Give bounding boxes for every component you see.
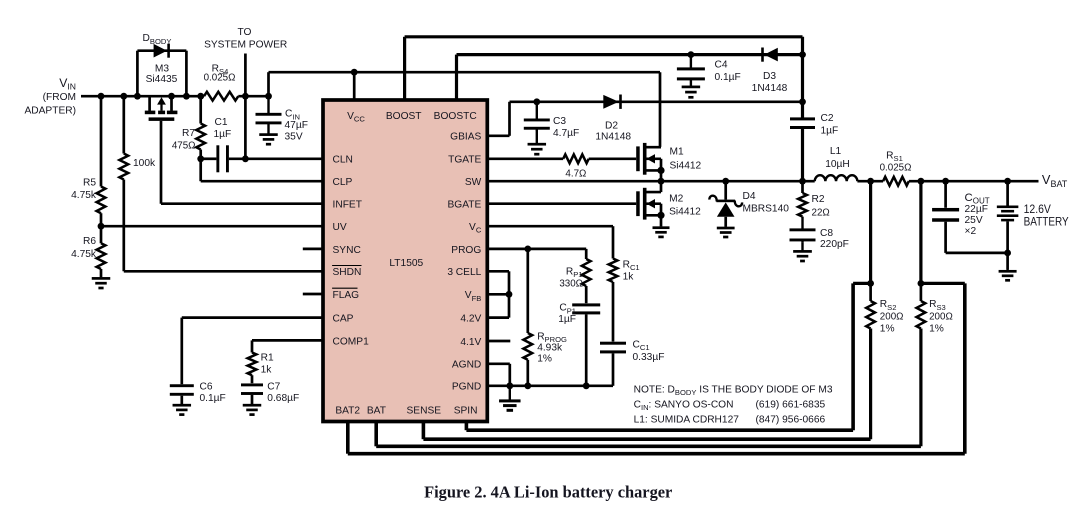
svg-text:D2: D2: [605, 121, 618, 132]
wire RS2 top branch: [853, 181, 874, 430]
svg-text:(619) 661-6835: (619) 661-6835: [756, 400, 826, 411]
svg-text:C4: C4: [715, 60, 728, 71]
label LT1505: [389, 258, 423, 269]
label CP1 1uF: [558, 303, 576, 325]
pin SW label: [465, 177, 482, 188]
svg-text:L1: SUMIDA CDRH127: L1: SUMIDA CDRH127: [634, 415, 740, 426]
ground below C6: [173, 404, 192, 416]
resistor RS2 200ohm 1%: [866, 283, 875, 439]
label RS1 0.025: [880, 151, 912, 174]
pin BGATE label: [448, 200, 482, 211]
svg-text:SENSE: SENSE: [407, 406, 442, 417]
svg-text:CLN: CLN: [333, 155, 353, 166]
label CIN 47uF 35V: [285, 109, 308, 143]
svg-text:UV: UV: [333, 222, 347, 233]
label VBAT: [1042, 172, 1068, 189]
node VIN rail junctions: [98, 93, 272, 100]
capacitor C4 0.1uF: [677, 55, 705, 99]
svg-text:R6: R6: [83, 236, 96, 247]
svg-text:35V: 35V: [285, 132, 303, 143]
label C6 0.1uF: [200, 382, 226, 405]
label RP1 330: [559, 266, 583, 289]
label D2 1N4148: [595, 121, 631, 143]
svg-text:INFET: INFET: [333, 200, 362, 211]
pin CAP label: [333, 314, 354, 325]
svg-text:SHDN: SHDN: [333, 267, 362, 278]
label C1 1uF: [214, 117, 232, 140]
svg-text:M1: M1: [670, 146, 684, 157]
svg-text:C3: C3: [553, 116, 566, 127]
capacitor C1 1uF: [201, 145, 229, 172]
wire CLP line: [201, 159, 323, 181]
op-amp U1 LT1505 controller IC body: [323, 100, 487, 422]
svg-text:1N4148: 1N4148: [752, 83, 788, 94]
label R7 475: [172, 128, 196, 151]
wire RS3 top branch: [918, 181, 965, 454]
ground below battery: [999, 270, 1017, 282]
svg-text:(847) 956-0666: (847) 956-0666: [756, 415, 826, 426]
pin VFB label: [465, 290, 482, 303]
svg-text:R7: R7: [182, 128, 195, 139]
svg-text:CAP: CAP: [333, 314, 354, 325]
svg-text:D4: D4: [743, 191, 756, 202]
svg-text:PGND: PGND: [452, 382, 481, 393]
capacitor CP1 1uF: [572, 303, 600, 385]
svg-text:4.7Ω: 4.7Ω: [565, 169, 586, 180]
wire BAT bus: [376, 422, 921, 447]
pin TGATE label: [448, 155, 481, 166]
svg-text:47µF: 47µF: [285, 120, 308, 131]
svg-text:FLAG: FLAG: [333, 290, 360, 301]
svg-text:1k: 1k: [261, 364, 273, 375]
label M2 Si4412: [669, 194, 701, 218]
wire to system power: [244, 54, 247, 159]
label R1 1k: [261, 353, 274, 376]
svg-text:0.1µF: 0.1µF: [715, 72, 741, 83]
svg-text:C2: C2: [821, 113, 834, 124]
resistor R7 475ohm: [196, 96, 205, 159]
ground below M2: [653, 226, 670, 238]
resistor RS3 200ohm 1%: [917, 283, 926, 446]
svg-text:100k: 100k: [133, 158, 156, 169]
label C7 0.68uF: [267, 382, 299, 405]
svg-text:200Ω: 200Ω: [929, 312, 953, 323]
svg-text:1k: 1k: [623, 271, 635, 282]
wire SENSE bus: [423, 422, 870, 440]
label C8 220pF: [820, 228, 849, 250]
transistor M2 Si4412 N-MOSFET: [636, 181, 664, 226]
capacitor C3 4.7uF: [524, 102, 550, 156]
svg-text:0.33µF: 0.33µF: [633, 352, 665, 363]
svg-text:22µF: 22µF: [965, 204, 988, 215]
pin SHDN label: [332, 266, 361, 279]
svg-text:R5: R5: [83, 178, 96, 189]
svg-text:ADAPTER): ADAPTER): [24, 106, 76, 117]
svg-text:0.68µF: 0.68µF: [267, 393, 299, 404]
label M3 Si4435: [146, 63, 178, 85]
svg-text:R1: R1: [261, 353, 274, 364]
wire SHDN line: [124, 270, 323, 273]
svg-text:0.1µF: 0.1µF: [200, 393, 226, 404]
wire GBIAS stub: [487, 102, 509, 136]
svg-text:1%: 1%: [880, 324, 895, 335]
svg-text:R2: R2: [812, 194, 825, 205]
wire 4.1V stub: [487, 340, 510, 343]
svg-text:CLP: CLP: [333, 177, 353, 188]
label M1 Si4412: [670, 146, 702, 171]
svg-text:Figure 2. 4A Li-Ion battery ch: Figure 2. 4A Li-Ion battery charger: [424, 483, 672, 502]
note text block: [634, 385, 833, 426]
pin CLN label: [333, 155, 353, 166]
resistor R6 4.75k: [97, 226, 106, 277]
capacitor C2 1uF: [790, 117, 815, 181]
svg-text:25V: 25V: [965, 215, 983, 226]
wire VC line: [487, 226, 613, 258]
capacitor COUT 22uF 25V x2: [932, 181, 1008, 253]
ground below R6: [92, 277, 111, 289]
pin SPIN label: [454, 406, 478, 417]
label D3 1N4148: [752, 71, 788, 94]
pin AGND label: [452, 360, 481, 371]
label C3 4.7uF: [553, 116, 579, 139]
pin BAT2 label: [335, 406, 360, 417]
svg-text:SYSTEM POWER: SYSTEM POWER: [204, 40, 287, 51]
wire VCC pin riser: [353, 72, 356, 100]
svg-text:LT1505: LT1505: [389, 258, 423, 269]
pin INFET label: [333, 200, 362, 211]
pin GBIAS label: [450, 132, 481, 143]
svg-text:TO: TO: [238, 27, 252, 38]
wire UV line: [101, 225, 323, 228]
label RS3 200 1%: [929, 299, 953, 335]
diode D3 1N4148: [761, 48, 778, 62]
label RS4 0.025: [204, 63, 236, 83]
pin PROG label: [451, 245, 481, 256]
resistor R2 22ohm: [798, 181, 807, 216]
ground below D4: [717, 227, 735, 239]
svg-text:C1: C1: [215, 117, 228, 128]
pin BOOSTC label: [434, 111, 477, 122]
svg-text:BOOST: BOOST: [386, 111, 422, 122]
label 100k: [133, 158, 156, 169]
svg-text:SYNC: SYNC: [333, 245, 361, 256]
transistor M3 Si4435 P-MOSFET: [145, 96, 178, 121]
pin SENSE label: [407, 406, 442, 417]
wire AGND tie: [487, 364, 510, 386]
svg-text:330Ω: 330Ω: [559, 278, 583, 289]
svg-text:L1: L1: [830, 146, 842, 157]
pin BAT label: [367, 406, 386, 417]
pin CLP label: [333, 177, 353, 188]
pin 4.1V label: [460, 337, 481, 348]
svg-text:Si4412: Si4412: [670, 161, 702, 172]
svg-text:MBRS140: MBRS140: [743, 203, 790, 214]
svg-text:BAT2: BAT2: [335, 406, 360, 417]
svg-text:1µF: 1µF: [821, 126, 839, 137]
label 12.6V BATTERY: [1024, 202, 1069, 228]
svg-text:PROG: PROG: [451, 245, 481, 256]
pin PGND label: [452, 382, 481, 393]
svg-text:22Ω: 22Ω: [812, 208, 830, 219]
label 4.7ohm: [565, 169, 586, 180]
pin 3 CELL label: [447, 267, 481, 278]
svg-text:4.1V: 4.1V: [460, 337, 481, 348]
label DBODY: [143, 33, 172, 46]
svg-text:COMP1: COMP1: [333, 336, 370, 347]
wire VBAT line: [857, 178, 1038, 185]
label C2 1uF: [821, 113, 839, 137]
label R6 4.75k: [71, 236, 97, 260]
svg-text:0.025Ω: 0.025Ω: [204, 73, 236, 84]
ground below C7: [243, 404, 262, 416]
wire CAP line: [182, 318, 323, 385]
svg-text:0.025Ω: 0.025Ω: [880, 163, 912, 174]
label COUT values: [965, 192, 990, 237]
wire BGATE line: [487, 202, 636, 205]
svg-text:AGND: AGND: [452, 360, 481, 371]
label RC1 1k: [623, 260, 640, 283]
wire M3 gate to INFET: [161, 121, 323, 204]
node PGND line dots: [506, 382, 589, 389]
wire 3CELL-VFB-4.2V tie: [487, 271, 512, 317]
svg-text:×2: ×2: [965, 226, 977, 237]
label L1 10uH: [825, 146, 850, 170]
svg-text:1N4148: 1N4148: [595, 131, 631, 142]
wire SPIN bus: [466, 422, 853, 431]
capacitor CC1 0.33uF: [487, 342, 626, 386]
svg-text:1%: 1%: [929, 324, 944, 335]
wire COMP1 line: [252, 340, 323, 352]
svg-text:4.2V: 4.2V: [460, 314, 481, 325]
label R5 4.75k: [71, 178, 97, 202]
wire VCC node line: [269, 69, 661, 147]
svg-text:4.75k: 4.75k: [71, 190, 97, 201]
label C4 0.1uF: [715, 60, 741, 83]
pin SYNC label: [333, 245, 361, 256]
svg-text:GBIAS: GBIAS: [450, 132, 481, 143]
transistor M1 Si4412 N-MOSFET: [636, 143, 664, 181]
pin 4.2V label: [460, 314, 481, 325]
node UV divider: [98, 223, 105, 230]
svg-text:200Ω: 200Ω: [880, 312, 904, 323]
resistor RC1 1k: [609, 259, 618, 342]
pin UV label: [333, 222, 347, 233]
wire VIN input rail: [81, 95, 269, 98]
pin FLAG label: [332, 288, 359, 301]
svg-text:CIN: SANYO OS-CON: CIN: SANYO OS-CON: [634, 400, 734, 413]
svg-text:3 CELL: 3 CELL: [447, 267, 481, 278]
svg-text:BATTERY: BATTERY: [1024, 214, 1069, 228]
svg-text:1%: 1%: [537, 354, 552, 365]
resistor RP1 330ohm: [582, 249, 591, 303]
label R2 22: [812, 194, 830, 219]
wire CLN line: [197, 155, 323, 162]
pin COMP1 label: [333, 336, 370, 347]
svg-text:D3: D3: [763, 71, 776, 82]
resistor 4.7ohm TGATE gate resistor: [487, 154, 636, 163]
svg-text:4.75k: 4.75k: [71, 249, 97, 260]
diode D4 MBRS140 schottky: [709, 181, 742, 227]
svg-text:SW: SW: [465, 177, 482, 188]
svg-text:SPIN: SPIN: [454, 406, 478, 417]
pin VCC label: [347, 111, 365, 124]
wire D2 line: [510, 98, 806, 105]
label RS2 200 1%: [880, 299, 904, 335]
svg-text:BGATE: BGATE: [448, 200, 482, 211]
capacitor C8 220pF: [790, 217, 816, 263]
svg-text:475Ω: 475Ω: [172, 141, 196, 152]
wire BOOSTC rail: [457, 51, 806, 100]
diode D2 1N4148: [603, 95, 622, 109]
pin BOOST label: [386, 111, 422, 122]
svg-text:BAT: BAT: [367, 406, 386, 417]
wire SW line: [487, 178, 814, 185]
ground AGND-PGND: [499, 386, 521, 412]
pin VC label: [469, 222, 482, 235]
wire BOOST rail: [405, 37, 803, 118]
svg-text:4.93k: 4.93k: [537, 342, 563, 353]
diode D_BODY body diode of M3: [137, 44, 186, 96]
svg-text:TGATE: TGATE: [448, 155, 481, 166]
label D4 MBRS140: [743, 191, 790, 214]
resistor RS1 0.025ohm: [883, 177, 909, 186]
label TO SYSTEM POWER: [204, 27, 287, 51]
svg-text:10µH: 10µH: [825, 159, 850, 170]
svg-text:1µF: 1µF: [558, 314, 576, 325]
capacitor C7 0.68uF: [241, 383, 263, 404]
svg-text:BOOSTC: BOOSTC: [434, 111, 477, 122]
capacitor CIN 47uF 35V: [256, 96, 282, 145]
svg-text:Si4435: Si4435: [146, 74, 178, 85]
svg-text:1µF: 1µF: [214, 129, 232, 140]
wire BAT2 bus: [348, 422, 965, 454]
label VIN (FROM ADAPTER): [24, 76, 76, 117]
inductor L1 10uH: [815, 175, 858, 181]
svg-text:M2: M2: [669, 194, 683, 205]
wire FLAG stub: [303, 293, 323, 296]
svg-text:C7: C7: [267, 382, 280, 393]
resistor RS4 0.025ohm: [204, 92, 238, 101]
resistor 100k: [119, 96, 128, 271]
battery 12.6V: [997, 181, 1019, 269]
resistor RPROG 4.93k 1%: [523, 249, 532, 386]
caption Figure 2: [424, 483, 672, 502]
svg-text:C6: C6: [200, 382, 213, 393]
label RPROG 4.93k 1%: [537, 331, 567, 364]
wire SYNC stub: [303, 248, 323, 251]
resistor R5 4.75k: [97, 96, 106, 226]
svg-text:(FROM: (FROM: [43, 92, 76, 103]
wire PROG line: [487, 246, 586, 253]
capacitor C6 0.1uF: [170, 384, 194, 404]
svg-text:M3: M3: [155, 63, 169, 74]
svg-text:C8: C8: [820, 228, 833, 239]
svg-text:Si4412: Si4412: [669, 206, 701, 217]
label CC1 0.33uF: [633, 339, 665, 363]
resistor R1 1k: [248, 353, 257, 384]
svg-text:NOTE: DBODY IS THE BODY DIODE: NOTE: DBODY IS THE BODY DIODE OF M3: [634, 385, 833, 398]
svg-text:220pF: 220pF: [820, 239, 849, 250]
svg-text:4.7µF: 4.7µF: [553, 128, 579, 139]
